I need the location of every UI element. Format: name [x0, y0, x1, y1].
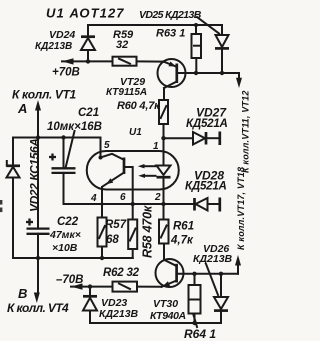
svg-text:R57: R57 [105, 219, 127, 231]
node junction C21 top [61, 135, 65, 139]
arrow node A [35, 100, 41, 111]
wire VT30 base to output node [177, 273, 238, 275]
svg-text:К колл.VT17, VT18: К колл.VT17, VT18 [236, 167, 246, 250]
svg-text:4,7к: 4,7к [170, 235, 194, 247]
callout line VD26 [206, 264, 218, 295]
svg-text:R63 1: R63 1 [156, 28, 185, 40]
svg-text:VT30: VT30 [153, 298, 178, 310]
arrow -70V [71, 283, 83, 289]
node junction R63 bottom [194, 71, 198, 75]
svg-text:К колл.VT11, VT12: К колл.VT11, VT12 [241, 90, 251, 173]
svg-text:А: А [17, 101, 27, 116]
diode VD28 [166, 198, 220, 212]
resistor R61 [159, 219, 169, 260]
node junction R63 top [194, 23, 198, 27]
node junction B/rail [36, 256, 40, 260]
node junction pin5/collector [99, 156, 103, 160]
svg-text:R60 4,7к: R60 4,7к [117, 100, 161, 112]
svg-text:U1 АОТ127: U1 АОТ127 [46, 6, 125, 21]
svg-text:В: В [18, 286, 27, 301]
diode VD24 [81, 25, 95, 61]
svg-text:5: 5 [104, 140, 110, 151]
svg-text:КД213В: КД213В [35, 41, 72, 52]
capacitor C22 [26, 219, 50, 294]
optocoupler U1 body [87, 151, 179, 190]
wire +70V feed [62, 60, 113, 62]
resistor R58 [128, 220, 137, 259]
svg-text:–70В: –70В [56, 274, 84, 286]
transistor VT30 [156, 259, 184, 287]
node junction VD23 top [88, 284, 92, 288]
wire R60 to pin 1 [163, 124, 165, 166]
svg-text:К колл. VT1: К колл. VT1 [12, 88, 77, 102]
transistor VT29 [158, 59, 186, 100]
wire R62 to VT30 emitter [137, 286, 162, 288]
svg-text:КД521А: КД521А [185, 181, 227, 193]
node junction R57/rail [100, 256, 104, 260]
node junction R64 top [192, 272, 196, 276]
wire VT29 base to output node [177, 72, 239, 74]
edge artifact [0, 200, 2, 212]
svg-text:×10В: ×10В [52, 242, 78, 254]
arrow +70V [62, 58, 74, 64]
phototransistor U1.2 [101, 154, 133, 220]
diode VD27 [166, 132, 220, 146]
svg-text:68: 68 [106, 234, 119, 246]
svg-text:R64 1: R64 1 [184, 327, 216, 341]
capacitor C21 [49, 138, 76, 205]
wire C21 bottom bus [64, 203, 164, 205]
node junction R64 bottom [192, 321, 196, 325]
node junction pin6 wire [131, 202, 135, 206]
resistor R63 [192, 25, 202, 73]
svg-text:4: 4 [90, 193, 97, 204]
svg-text:КД213В: КД213В [99, 308, 139, 320]
LED U1.1 [157, 166, 171, 220]
wire pin 5 [100, 138, 102, 158]
diode VD25 [215, 25, 229, 73]
svg-text:R58 470к: R58 470к [141, 205, 155, 258]
wire -70V feed [71, 286, 113, 288]
svg-text:U1: U1 [129, 127, 142, 138]
light arrow 2 [138, 174, 155, 178]
diode VD23 [83, 287, 97, 323]
wire bottom rail [90, 322, 221, 324]
wire R59 to VT29 emitter [137, 60, 164, 62]
node junction pin4 cross [100, 202, 103, 205]
svg-text:КТ9115А: КТ9115А [106, 87, 147, 98]
svg-text:R62 32: R62 32 [103, 267, 140, 279]
svg-text:6: 6 [120, 192, 126, 203]
node junction pin2/R61 [161, 202, 165, 206]
node junction A/rail [36, 135, 40, 139]
node junction VD25 bottom [220, 71, 224, 75]
wire pin 4 [101, 187, 103, 217]
svg-text:КТ940А: КТ940А [150, 310, 186, 322]
svg-text:С21: С21 [78, 107, 99, 119]
zener VD22 [7, 138, 21, 259]
light arrow 1 [138, 164, 156, 168]
wire output to VT17/VT18 [237, 264, 239, 274]
svg-text:+70В: +70В [52, 67, 80, 79]
resistor R57 [98, 217, 107, 258]
svg-text:VD22 КС156А: VD22 КС156А [28, 138, 42, 212]
callout line R64 [194, 315, 198, 327]
resistor R62 [113, 282, 138, 292]
callout line VD25 [197, 17, 219, 34]
svg-text:2: 2 [154, 192, 161, 203]
node junction VD26 top [219, 272, 223, 276]
arrow node B [34, 293, 40, 304]
node junction VD27 tap [161, 136, 165, 140]
svg-text:R61: R61 [173, 221, 194, 233]
callout line C21 [66, 131, 75, 168]
resistor R64 [189, 274, 201, 323]
svg-text:К колл. VT4: К колл. VT4 [7, 301, 69, 315]
svg-text:VD24: VD24 [49, 29, 75, 41]
node junction VD24/+70V [86, 59, 90, 63]
wire output to VT11/VT12 [236, 73, 242, 88]
wire left rail bottom [13, 257, 133, 259]
svg-text:47мк×: 47мк× [49, 229, 81, 241]
wire node A bus [37, 108, 39, 229]
svg-text:VD25 КД213В: VD25 КД213В [139, 9, 202, 21]
resistor R60 [159, 100, 168, 124]
svg-text:С22: С22 [57, 216, 79, 228]
svg-text:1: 1 [153, 141, 159, 152]
wire left rail top [13, 137, 101, 139]
resistor R59 [113, 57, 137, 66]
arrow output VT17/VT18 [235, 255, 241, 266]
svg-text:КД521А: КД521А [186, 118, 228, 130]
svg-text:КД213В: КД213В [193, 253, 233, 265]
svg-text:32: 32 [116, 39, 128, 51]
wire top rail [88, 24, 222, 26]
diode VD26 [214, 274, 228, 323]
